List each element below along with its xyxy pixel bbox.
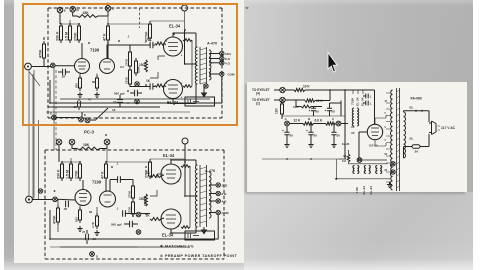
electrolytic 10 (ch1) (113, 95, 123, 107)
wire ch1 bias drops (150, 56, 165, 78)
heater coil EL-34 b (376, 166, 382, 174)
node A label (285, 117, 288, 121)
resistor 270K (ch2 grid) (75, 161, 82, 181)
label pin numbers ch2 upper EL34 (163, 167, 180, 183)
resistor 330K (ch1) (56, 23, 63, 43)
label A-470 (ch2) (205, 169, 215, 173)
output tube EL-34 (ch2 lower) (161, 209, 181, 229)
eyelet (4) (280, 87, 285, 92)
eyelet COM (ch1) (220, 72, 235, 77)
resistor 15 ohm (ch2 bias) (139, 194, 147, 206)
resistor 330K (ch2) (57, 161, 64, 181)
wire triode plate to caps (ch2) (108, 180, 151, 214)
ground secondary (ch1) (202, 84, 207, 97)
capacitor .05 (ch1) (58, 69, 70, 79)
rectifier tube GZ-34 (367, 124, 382, 139)
wire eyelet2 right (285, 99, 305, 101)
wire grids to EL-34 (ch2) (161, 175, 164, 219)
wire 470K to input line (43, 37, 45, 66)
wire input to grid (ch1) (31, 65, 74, 68)
resistor 18K (ch2) (77, 143, 100, 150)
ground psu b (308, 142, 313, 148)
orange highlight box (22, 3, 238, 126)
capacitor .05 (ch2) (63, 201, 68, 211)
wire eyelet4 to 10K (285, 89, 294, 91)
resistor 820 (ch2 cathode) (75, 207, 82, 223)
wire 16ohm tap (ch2) (209, 184, 216, 186)
vertical wire x56 (55, 70, 57, 150)
wire top bus ch1 (61, 16, 185, 24)
wire plug risers (428, 111, 430, 147)
resistor 270K (ch1 triode load) (145, 21, 152, 41)
wire ch1 screen drops (60, 40, 210, 99)
ground ch1 cathode (77, 74, 99, 98)
resistor 470K (ch2 input) (53, 199, 60, 232)
label 47 (ch2) (82, 230, 86, 234)
resistor 1K (ch2 lower stop) (146, 214, 162, 221)
eyelet 16 ohm (ch1) (220, 51, 232, 56)
screen resistor (ch2 upper) (181, 165, 190, 168)
wire 22K to 6.8K (314, 123, 326, 125)
wire below box left (ch1) (56, 117, 79, 119)
ground secondary (ch2) (202, 227, 207, 234)
feedback wire (ch1) (50, 76, 222, 103)
secondary tap labels (385, 100, 388, 172)
heater coil EL-34 a (364, 166, 370, 174)
note matched 1% (160, 245, 194, 249)
mains plug (429, 121, 440, 135)
small mark on gray panel (246, 7, 250, 9)
eyelet 8 ohm (ch1) (220, 56, 231, 61)
junction dot row1 (329, 89, 346, 91)
label 7199 (ch1) (90, 48, 100, 53)
wire EL-34 plates to primary (ch2) (171, 160, 196, 233)
node C label (332, 117, 335, 121)
pilot lamp BL b (410, 137, 414, 141)
channel 1 dashed enclosure PC-3 (48, 8, 222, 118)
label .02 (ch2) (92, 237, 96, 241)
junction dots caps (310, 123, 335, 125)
terminal J3 (ch1) (105, 3, 114, 12)
mouse cursor (328, 53, 337, 73)
resistor 1.5M (ch1) (65, 23, 72, 43)
resistor 15 ohm (ch1 bias) (139, 60, 147, 72)
ground ch2 cathode (77, 206, 99, 236)
wire top bus ch2 (62, 145, 185, 162)
resistor 10K (psu row1) (294, 85, 310, 92)
output transformer A-470 core (ch1) (200, 47, 207, 84)
wire rectifier B+ riser (374, 90, 376, 124)
wire 50b top (330, 101, 342, 117)
bus wire psu mid (282, 115, 345, 117)
wire B+ to CT (ch2) (185, 162, 196, 196)
label .1 (ch2 coupling) (116, 162, 119, 211)
channel 2 dashed enclosure (45, 150, 224, 259)
resistor 270K (ch2 splitter upper) (128, 183, 135, 201)
label A-470 (ch1) (207, 42, 217, 46)
electrolytic 20 c (psu) (331, 124, 340, 143)
eyelet (2) (280, 97, 285, 102)
label PA-060 (411, 97, 422, 101)
wire ch2 bias drops (150, 174, 163, 196)
wire 18K to J3 (98, 11, 108, 16)
label EL-34 (ch2 upper) (163, 153, 175, 158)
wire 4ohm tap (ch1) (209, 62, 220, 64)
label 0.5 (ch1) (120, 65, 124, 69)
eyelet transformer heater a (391, 162, 395, 166)
capacitor 560uuf (ch2) (111, 212, 141, 234)
coupling capacitor .1 (ch1 upper) (130, 40, 155, 49)
wire 18K leads (ch2) (72, 145, 107, 149)
wire to eyelet 4 (274, 89, 280, 91)
wire ch2 screen drops (189, 166, 191, 227)
pilot lamp BL a (404, 106, 430, 113)
wire heater bus right (339, 150, 388, 164)
wire 4ohm tap (ch2) (209, 200, 216, 202)
wires heater stack top (353, 90, 363, 94)
resistor 270K (ch1 grid) (74, 23, 81, 43)
label B D bottom ch1 (50, 113, 107, 136)
resistor 100 (ch2 cathode) (89, 210, 99, 229)
electrolytic 20 b (psu) (306, 124, 317, 143)
terminal J2 (ch1) (70, 4, 79, 13)
power transformer PA-060 core (397, 88, 400, 191)
input jack ch2 (26, 196, 33, 203)
input jack ch1 (25, 63, 32, 70)
meter box (ch1) (185, 97, 215, 106)
wire C right (341, 90, 348, 159)
wire J2 to R 18K (73, 11, 77, 16)
B+ terminal post (ch1) (182, 4, 188, 31)
coupling capacitor .1 (ch1 lower) (139, 83, 155, 89)
eyelet transformer heater b (391, 170, 395, 174)
eyelet node A (285, 121, 290, 126)
wire 16ohm tap (ch1) (209, 53, 220, 55)
eyelet 4 ohm (ch2) (216, 199, 227, 204)
wire row3 (296, 100, 322, 107)
pentode-triode 7199 (ch2) (75, 190, 116, 208)
label EL-34 (ch2 lower) (162, 233, 174, 238)
tie point eyelet (ch1 grid) (51, 63, 56, 68)
heater winding symbols left (352, 108, 358, 126)
label EL-34 (ch1 lower) (167, 100, 179, 105)
wire to eyelet 2 (274, 99, 280, 101)
capacitor .02 (ch2 bottom) (86, 230, 89, 244)
eyelet 4 ohm (ch1) (220, 61, 231, 66)
resistor 100 (ch1 cathode 2) (92, 75, 99, 91)
electrolytic 50 b (psu) (325, 103, 336, 116)
heater coil 7199 (353, 166, 359, 174)
wire grid to EL-34 lower (ch1) (164, 86, 166, 87)
capacitor .02 (ch1 bottom) (78, 99, 81, 110)
power transformer PA-060 secondary winding (390, 90, 392, 190)
label .1 (ch1 coupling) (127, 35, 130, 83)
resistor 22K (psu) (294, 119, 314, 126)
ground psu c (331, 142, 336, 148)
resistor 270K (ch1 splitter upper) (125, 49, 132, 69)
label PC-3 (84, 130, 95, 135)
wire below box (ch1) (48, 107, 160, 120)
wire bottom bus (ch2) (60, 246, 190, 248)
terminal J1 (ch1 input eyelet) (57, 7, 66, 13)
wire rectifier plate loop top (375, 115, 386, 124)
feedback wire (ch2) (50, 210, 218, 239)
resistor 47K (ch1 plate load) (103, 23, 110, 43)
resistor 10K (psu row3) (293, 105, 311, 109)
resistor 47K (ch2 plate load) (101, 161, 108, 181)
ground heater (387, 182, 392, 188)
output tube EL-34 (ch1 lower) (164, 80, 183, 99)
screen resistor (ch2 lower) (181, 226, 190, 229)
wire COM tap (ch1) (209, 73, 220, 75)
B+ terminal post (ch2) (182, 138, 188, 162)
left schematic page (14, 0, 244, 263)
label .02 (ch1) (73, 105, 77, 109)
output transformer A-470 primary (ch1) (195, 47, 197, 84)
capacitor .1 a (psu) (363, 94, 372, 99)
wire grid to EL-34 upper (ch1) (164, 44, 166, 45)
wire COM tap (ch2) (209, 212, 216, 214)
wire rectifier plate loop bottom (375, 140, 386, 146)
input bus wires between channels (29, 68, 54, 199)
label pin numbers ch2 lower EL34 (163, 212, 180, 228)
resistor 18K (ch1) (77, 11, 98, 17)
wire rectifier left (359, 132, 367, 159)
wire triode plate to cap (ch1) (107, 45, 139, 87)
capacitor 560uuf (ch1) (114, 82, 142, 104)
eyelet node C (336, 121, 341, 126)
resistor 470K (ch1 input) (39, 41, 46, 61)
resistor 270K (ch1 splitter lower) (125, 58, 141, 87)
resistor 30 hum balance (342, 154, 350, 163)
fuse 3A (404, 145, 430, 158)
wire 12K vert leads (281, 100, 283, 119)
coupling capacitor .1 (ch2 lower) (123, 210, 136, 216)
label 117V AC (441, 126, 456, 130)
electrolytic 20 a (psu) (282, 126, 293, 142)
pentode-triode 7199 (ch1) (75, 59, 115, 74)
wire J1 down (60, 8, 140, 28)
wire EL-34 plates to primary (ch1) (173, 33, 196, 104)
terminal bottom (ch2) (50, 247, 138, 259)
label 7199 (ch2) (92, 180, 102, 185)
label TO EYELET (2) (252, 98, 270, 106)
label 47 (ch1) (88, 98, 92, 102)
resistor 1K (ch1 lower grid stop) (146, 79, 164, 87)
capacitor .1 b (psu) (363, 101, 372, 106)
label pin numbers ch1 lower EL34 (166, 83, 183, 99)
screen resistor (ch1 lower) (183, 84, 208, 88)
resistor 12K (psu row2) (305, 99, 323, 103)
terminal below box (ch1 mid) (79, 117, 90, 123)
output tube EL-34 (ch1 upper) (164, 37, 183, 56)
resistor 12K vertical (psu) (275, 101, 284, 117)
wire ch1 bottom bus2 (46, 111, 190, 113)
wire input to grid (ch2) (32, 198, 75, 201)
node B label (308, 117, 311, 121)
label TO EYELET (4) (252, 88, 270, 96)
resistor 1.5M (ch2) (66, 161, 73, 181)
meter box (ch2) (185, 231, 215, 240)
wire 12K to node (315, 90, 330, 101)
terminal J1 (ch2) (56, 139, 62, 145)
wire 8ohm tap (ch2) (209, 193, 216, 195)
tie point eyelet (ch2) (53, 197, 58, 202)
power transformer PA-060 primary winding (404, 112, 406, 158)
ground psu a (284, 142, 289, 148)
heater bottom bus (335, 159, 390, 180)
right schematic page (244, 0, 473, 192)
junction dots ch2 (49, 159, 197, 240)
output transformer A-470 core (ch2) (200, 165, 207, 227)
resistor 1K (ch2 upper stop) (146, 171, 161, 178)
capacitor .05 labels (351, 125, 355, 135)
terminal J2 (ch2) (69, 139, 75, 145)
screen resistor (ch1 upper) (183, 39, 192, 42)
label pin numbers ch1 upper EL34 (166, 41, 183, 57)
wire plate 47K to 7199 (82, 43, 108, 58)
wire 10K to bus (305, 89, 375, 91)
resistor 6.8K (psu) (315, 119, 336, 126)
output tube EL-34 (ch2 upper) (161, 164, 181, 184)
output transformer A-470 secondary (ch1) (209, 50, 211, 80)
wire J1 down (ch2) (58, 145, 60, 162)
output transformer A-470 secondary (ch2) (209, 172, 211, 218)
eyelet 16 ohm (ch2) (216, 183, 228, 188)
heater bus left (262, 158, 339, 160)
coupling capacitor .1 (ch2 upper) (110, 176, 133, 186)
wire plates (ch2) (83, 180, 106, 191)
eyelet heater (357, 158, 362, 163)
output transformer A-470 primary (ch2) (195, 165, 197, 227)
heater label stack top (351, 97, 365, 106)
label GZ-34 (342, 142, 378, 148)
wire A to 22K (289, 123, 303, 125)
junction dots ch1 (49, 23, 197, 105)
eyelet 8 ohm (ch2) (216, 191, 227, 196)
resistor 270K (ch2 splitter lower) (128, 196, 148, 217)
wire 8ohm tap (ch1) (209, 58, 220, 60)
resistor 820 (ch1 cathode) (75, 75, 82, 91)
eyelet COM (ch2) (216, 210, 229, 215)
secondary tap leads (386, 93, 390, 182)
input bus extra vertical (33, 70, 35, 198)
note preamp takeoff (160, 254, 237, 258)
wire B+ rail to transformer CT (ch1) (185, 30, 197, 64)
label heater stack bottom (355, 186, 373, 195)
resistor 1K (ch1 upper grid stop) (148, 38, 165, 45)
junction dots heater (286, 158, 312, 160)
electrolytic 50 a (psu) (309, 107, 320, 117)
resistor 270K (ch2 triode load) (145, 159, 152, 179)
terminal J3 (ch2) (104, 139, 110, 145)
label EL-34 (ch1 upper) (169, 24, 181, 29)
terminal below box (ch1 left) (52, 115, 57, 120)
